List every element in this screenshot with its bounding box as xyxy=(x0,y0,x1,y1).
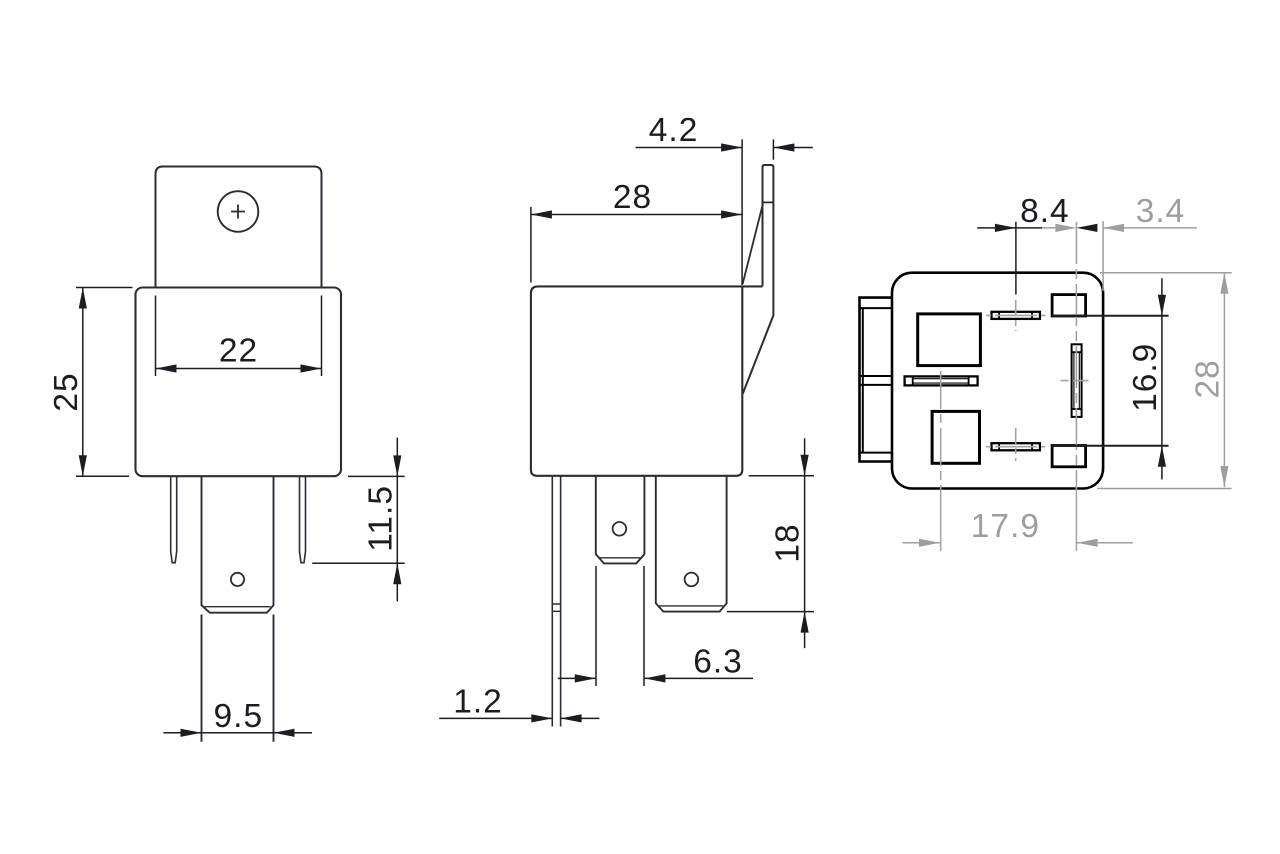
dimension 16.9 arrows xyxy=(1158,295,1166,467)
mounting bracket edge view xyxy=(860,298,892,462)
bevel line on 6.3 blade xyxy=(599,557,641,559)
dimension 28 right line (gray) xyxy=(1223,273,1225,487)
cross mark in mounting hole xyxy=(231,205,245,219)
dimension 8.4 line xyxy=(977,227,1042,229)
terminal opening square (bottom-right) xyxy=(1052,446,1086,467)
dimension 22 line xyxy=(156,368,322,370)
right thin pin front view xyxy=(300,477,306,563)
svg-text:25: 25 xyxy=(48,372,85,411)
bevel line on centre blade xyxy=(205,606,271,608)
dimension 11.5 arrows xyxy=(393,455,401,584)
svg-text:9.5: 9.5 xyxy=(214,698,264,735)
centreline horizontal right slot xyxy=(1061,380,1091,382)
dimension 28 extension line xyxy=(530,207,532,283)
dimension 25 extension lines xyxy=(76,288,133,477)
relay body front view xyxy=(136,288,342,477)
dimension 11.5 extension lines xyxy=(312,476,405,563)
top-centre slot opening xyxy=(992,312,1040,319)
svg-text:18: 18 xyxy=(770,523,807,562)
dimension 9.5 line xyxy=(163,732,312,734)
hole in centre blade xyxy=(231,573,244,586)
centreline vertical through bottom slot xyxy=(1015,428,1017,461)
svg-text:11.5: 11.5 xyxy=(363,485,400,552)
dimension 22 extension lines xyxy=(156,296,322,377)
dimension 6.3 line xyxy=(558,677,753,679)
centre blade terminal front view xyxy=(202,477,274,613)
left slot opening xyxy=(905,376,978,385)
dimension 6.3 arrows xyxy=(575,674,666,682)
dimension 4.2 line xyxy=(636,147,813,149)
svg-text:3.4: 3.4 xyxy=(1136,193,1186,230)
centreline horizontal top slot xyxy=(986,314,1045,316)
dimension 3.4 extension line (gray) xyxy=(1102,221,1104,291)
dimension 28 arrows xyxy=(531,210,742,218)
svg-text:6.3: 6.3 xyxy=(693,644,743,681)
bracket inner vertical line xyxy=(862,308,864,453)
dimension 17.9 line (gray) xyxy=(902,542,1132,544)
dimension 28 right arrows (gray) xyxy=(1220,273,1228,487)
crimp marks on thin pin xyxy=(552,604,560,611)
dimension 16.9 line xyxy=(1161,278,1163,479)
centreline vertical right column xyxy=(1075,222,1077,490)
svg-text:8.4: 8.4 xyxy=(1020,193,1070,230)
dimension 18 line xyxy=(804,438,806,648)
svg-text:28: 28 xyxy=(1189,359,1226,398)
left thin pin front view xyxy=(171,477,177,563)
terminal opening square 87 (top-left) xyxy=(918,314,981,366)
centreline vertical left column xyxy=(940,371,942,490)
dimension 18 extension lines xyxy=(727,476,814,612)
6.3 blade side view xyxy=(596,477,645,564)
centreline vertical through top slot xyxy=(1015,300,1017,331)
svg-text:17.9: 17.9 xyxy=(971,508,1040,545)
dimension 9.5 arrows xyxy=(181,729,295,737)
mounting hole circle xyxy=(218,191,259,232)
dimension 3.4 line (gray) xyxy=(1042,227,1197,229)
mounting tab front view xyxy=(156,167,322,289)
dimension 22 arrows xyxy=(156,364,322,372)
svg-text:1.2: 1.2 xyxy=(453,683,503,720)
dimension 1.2 arrows xyxy=(531,714,581,722)
hole in 6.3 blade xyxy=(613,522,627,536)
lower 9.5 blade front view xyxy=(202,615,274,742)
bracket rib lines xyxy=(860,308,892,453)
9.5 blade side view xyxy=(656,477,727,612)
terminal opening square (top-right) xyxy=(1052,295,1086,316)
dimension 1.2 line xyxy=(439,717,599,719)
tab inner diagonal xyxy=(743,206,763,285)
centreline horizontal bottom slot xyxy=(986,446,1045,448)
terminal opening square 30 (bottom-left) xyxy=(932,411,979,463)
dimension 16.9 extension lines xyxy=(1052,316,1169,446)
extension lines below 6.3 blade xyxy=(596,566,644,686)
dimension 8.4 extension line xyxy=(1015,222,1017,295)
svg-text:16.9: 16.9 xyxy=(1127,343,1164,412)
bottom-centre slot opening xyxy=(992,443,1040,450)
dimension 3.4 arrows (gray) xyxy=(1055,224,1124,232)
dimension 17.9 arrows (gray) xyxy=(919,539,1098,547)
svg-text:4.2: 4.2 xyxy=(649,112,699,149)
svg-text:22: 22 xyxy=(219,333,258,370)
dimension 25 arrows xyxy=(79,288,87,477)
body top edge extension under tab xyxy=(742,285,762,287)
mounting tab side view xyxy=(743,165,774,394)
tab bend line xyxy=(763,201,774,203)
bevel line on 9.5 blade xyxy=(659,605,724,607)
relay body side view xyxy=(531,286,742,475)
dimension 8.4 arrows xyxy=(995,224,1098,232)
thin pin side view xyxy=(552,477,560,727)
dimension 4.2 arrows xyxy=(721,143,794,151)
right vertical slot opening xyxy=(1072,344,1082,417)
relay body bottom view xyxy=(892,273,1103,489)
dimension 18 arrows xyxy=(801,455,809,633)
dimension 4.2 extension lines xyxy=(742,139,773,285)
dimension 25 line xyxy=(82,288,84,477)
dimension 11.5 line xyxy=(396,438,398,602)
dimension 28 right extension lines (gray) xyxy=(1097,273,1232,489)
dimension 28 line xyxy=(531,214,742,216)
svg-text:28: 28 xyxy=(613,179,652,216)
hole in 9.5 blade xyxy=(685,573,699,587)
